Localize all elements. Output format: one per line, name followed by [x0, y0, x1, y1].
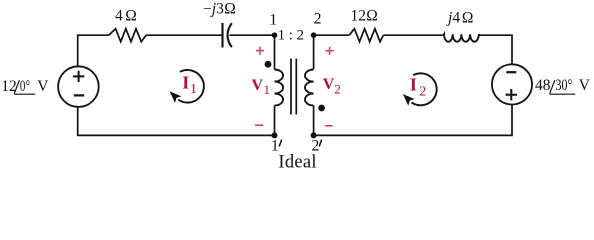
svg-text:30°: 30°	[556, 77, 573, 94]
svg-text:I: I	[182, 73, 189, 93]
svg-text:−j3: −j3	[203, 0, 224, 17]
svg-text:V: V	[323, 76, 335, 93]
svg-text:V: V	[579, 77, 591, 94]
svg-text:Ω: Ω	[462, 9, 474, 26]
svg-text:4: 4	[115, 8, 123, 25]
svg-text:V: V	[37, 78, 49, 95]
svg-text:1: 1	[190, 82, 197, 97]
svg-text:2: 2	[334, 82, 341, 97]
svg-text:12: 12	[351, 7, 367, 24]
svg-text:2: 2	[419, 84, 426, 99]
svg-text:1 : 2: 1 : 2	[278, 27, 304, 43]
svg-text:V: V	[252, 77, 264, 94]
svg-text:j4: j4	[446, 9, 460, 26]
svg-text:Ideal: Ideal	[278, 152, 316, 172]
svg-text:2: 2	[314, 10, 322, 27]
svg-text:Ω: Ω	[125, 8, 137, 25]
svg-text:I: I	[410, 75, 417, 95]
svg-text:Ω: Ω	[224, 0, 236, 17]
svg-text:1: 1	[269, 11, 277, 28]
svg-text:0°: 0°	[20, 78, 30, 95]
svg-text:1: 1	[264, 82, 271, 97]
svg-text:48: 48	[535, 77, 551, 94]
svg-text:Ω: Ω	[366, 7, 378, 24]
